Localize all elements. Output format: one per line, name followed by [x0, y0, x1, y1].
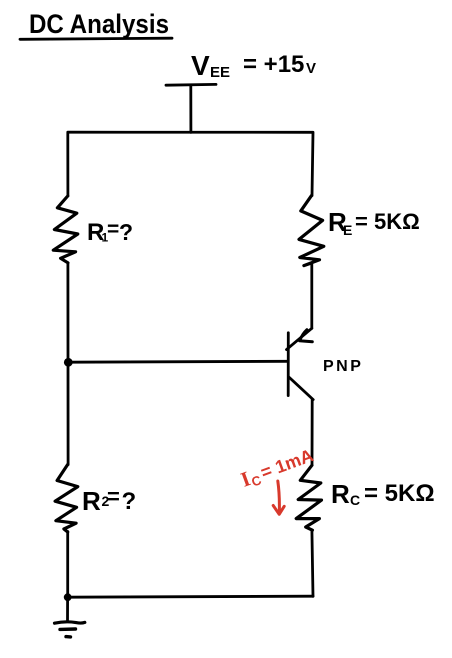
svg-text:=: = — [107, 484, 120, 509]
svg-text:= 5KΩ: = 5KΩ — [364, 480, 435, 507]
svg-text:?: ? — [122, 488, 137, 515]
svg-text:EE: EE — [210, 64, 230, 81]
svg-text:C: C — [350, 492, 360, 508]
svg-text:= +15: = +15 — [243, 51, 304, 78]
svg-text:=: = — [107, 218, 119, 241]
svg-text:= 5KΩ: = 5KΩ — [355, 209, 420, 234]
svg-text:PNP: PNP — [323, 358, 363, 375]
svg-text:DC Analysis: DC Analysis — [29, 9, 169, 39]
svg-text:V: V — [191, 50, 210, 81]
svg-text:= 1mA: = 1mA — [258, 445, 316, 482]
svg-text:E: E — [343, 222, 352, 238]
svg-text:R: R — [82, 486, 101, 516]
svg-text:V: V — [306, 60, 316, 77]
svg-text:R: R — [331, 479, 350, 509]
svg-text:?: ? — [119, 219, 133, 245]
